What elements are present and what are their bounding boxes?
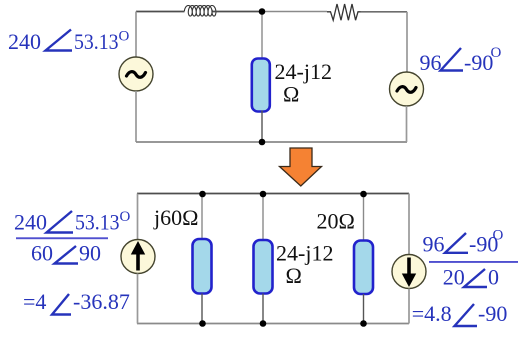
svg-text:0: 0 — [488, 265, 499, 290]
resistor (series, top right) — [327, 4, 361, 20]
wire inductor to node A — [213, 11, 263, 13]
svg-text:=4: =4 — [23, 289, 46, 314]
node C (top of j60 branch) — [199, 191, 206, 198]
impedance 20 ohm — [354, 241, 373, 295]
svg-text:O: O — [120, 209, 131, 225]
wire middle branch upper (top circuit) — [261, 12, 263, 59]
wire top-left segment (top loop) — [136, 11, 185, 13]
node D (bottom of j60 branch) — [199, 320, 206, 327]
svg-text:Ω: Ω — [283, 82, 299, 107]
voltage source Vs2 (96∠-90°) — [390, 72, 424, 106]
formula denominator 60∠90 (Is1) — [31, 241, 101, 266]
formula result =4.8∠-90 (Is2) — [412, 301, 508, 326]
svg-text:O: O — [119, 29, 130, 45]
inductor (series, top left) — [184, 6, 216, 17]
wire node A to resistor — [262, 11, 327, 13]
svg-text:-90: -90 — [464, 50, 493, 75]
svg-text:O: O — [493, 228, 504, 244]
wire 24-j12 branch upper (bottom circuit) — [262, 194, 264, 241]
node G (top of 20 ohm branch) — [360, 191, 367, 198]
svg-text:96: 96 — [423, 231, 445, 256]
svg-text:240: 240 — [8, 29, 41, 54]
wire top of bottom loop — [137, 193, 409, 195]
svg-text:53.13: 53.13 — [74, 29, 119, 54]
wire left side upper (bottom circuit) — [137, 194, 139, 241]
formula numerator 240∠53.13° (Is1) — [14, 209, 131, 235]
formula denominator 20∠0 (Is2) — [443, 265, 499, 290]
svg-text:20: 20 — [443, 265, 465, 290]
node H (bottom of 20 ohm branch) — [360, 320, 367, 327]
svg-text:O: O — [491, 45, 502, 61]
wire bottom of bottom loop — [137, 323, 409, 325]
node E (top of 24-j12 branch, bottom circuit) — [260, 191, 267, 198]
svg-text:240: 240 — [14, 210, 47, 235]
wire left side upper (top circuit) — [135, 12, 137, 58]
source value label 240∠53.13° (Vs1) — [8, 29, 130, 55]
wire right side lower (top circuit) — [406, 106, 408, 142]
node F (bottom of 24-j12 branch, bottom circuit) — [260, 320, 267, 327]
fraction bar (Is2 formula) — [429, 261, 518, 263]
svg-text:53.13: 53.13 — [75, 210, 120, 235]
svg-text:20Ω: 20Ω — [317, 208, 355, 233]
impedance j60 ohm — [193, 239, 212, 294]
current source Is2 (4.8∠-90, down arrow) — [392, 255, 426, 289]
svg-text:24-j12: 24-j12 — [275, 59, 332, 84]
wire middle branch lower (top circuit) — [261, 111, 263, 143]
wire j60 branch upper — [201, 194, 203, 240]
svg-text:24-j12: 24-j12 — [276, 241, 333, 266]
svg-text:-90: -90 — [478, 301, 507, 326]
impedance Z2 24-j12 ohm (bottom circuit) — [254, 240, 273, 294]
wire left side lower (bottom circuit) — [137, 274, 139, 324]
wire resistor to top-right corner — [361, 11, 408, 13]
current source Is1 (4∠-36.87, up arrow) — [121, 240, 155, 274]
wire 20 ohm branch lower — [363, 294, 365, 324]
wire right side lower (bottom circuit) — [408, 289, 410, 324]
formula numerator 96∠-90° (Is2) — [423, 228, 504, 257]
transform arrow (source transformation) — [280, 148, 322, 186]
wire j60 branch lower — [201, 294, 203, 324]
svg-text:Ω: Ω — [286, 263, 302, 288]
impedance Z1 24-j12 ohm (top circuit) — [252, 59, 270, 112]
formula result =4∠-36.87 (Is1) — [23, 289, 130, 314]
wire right side upper (top circuit) — [406, 12, 408, 72]
voltage source Vs1 (240∠53.13°) — [119, 57, 153, 91]
node B (bottom of 24-j12 branch, top circuit) — [259, 139, 266, 146]
svg-text:j60Ω: j60Ω — [153, 205, 198, 230]
svg-text:-36.87: -36.87 — [73, 289, 130, 314]
wire 20 ohm branch upper — [363, 194, 365, 241]
svg-text:90: 90 — [79, 241, 101, 266]
wire 24-j12 branch lower (bottom circuit) — [262, 294, 264, 324]
node A (top of 24-j12 branch, top circuit) — [259, 8, 266, 15]
wire bottom of top loop — [136, 141, 407, 143]
svg-text:60: 60 — [31, 241, 53, 266]
wire right side upper (bottom circuit) — [408, 194, 410, 255]
source value label 96∠-90° (Vs2) — [420, 45, 502, 75]
fraction bar (Is1 formula) — [16, 237, 108, 239]
svg-text:=4.8: =4.8 — [412, 301, 452, 326]
wire left side lower (top circuit) — [135, 91, 137, 142]
